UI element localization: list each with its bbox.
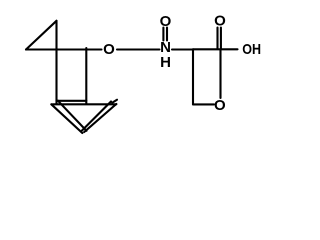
ring top edge + bond to OH — [193, 48, 238, 50]
inner V left — [58, 101, 87, 131]
inner V right — [82, 102, 111, 131]
ring bottom edge — [193, 103, 214, 105]
cyclopropane edge — [26, 21, 57, 50]
outer V right — [84, 104, 116, 132]
svg-text:O: O — [214, 97, 226, 114]
svg-text:O: O — [103, 41, 115, 58]
svg-text:H: H — [160, 54, 171, 71]
main horizontal chain left — [26, 48, 102, 50]
lower bottom horizontal — [53, 103, 117, 105]
ring left vertical — [192, 49, 194, 104]
hook segment top-right — [112, 100, 117, 103]
ring right vertical — [219, 49, 221, 98]
outer V left — [51, 104, 82, 133]
N=O double bond — [162, 28, 164, 41]
vertical bond 2 — [85, 48, 87, 104]
bond O to N — [117, 48, 160, 50]
svg-text:O: O — [160, 13, 172, 30]
upper bottom horizontal — [57, 100, 87, 102]
svg-text:O: O — [214, 13, 226, 30]
svg-text:OH: OH — [242, 41, 261, 58]
bond N to ring — [172, 48, 193, 50]
vertical bond 1 — [55, 21, 57, 104]
C=O double bond — [216, 28, 218, 49]
